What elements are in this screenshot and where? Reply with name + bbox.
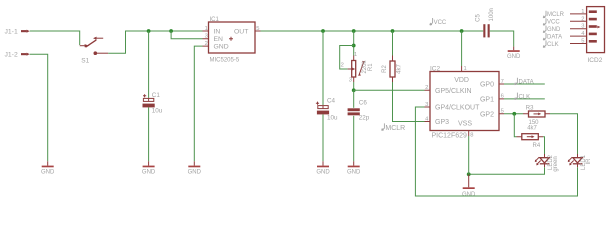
svg-text:EN: EN — [214, 36, 224, 43]
svg-text:MCLR: MCLR — [547, 12, 565, 18]
svg-text:MIC5205-5: MIC5205-5 — [210, 57, 240, 63]
svg-text:3: 3 — [425, 102, 428, 108]
junction dot (R1 branch) — [352, 29, 356, 33]
svg-text:3: 3 — [349, 78, 352, 84]
wire rail to C1 — [148, 31, 150, 98]
ground (J1-2) — [41, 161, 55, 175]
svg-text:GND: GND — [547, 27, 561, 33]
svg-text:R2: R2 — [382, 65, 388, 73]
svg-text:100n: 100n — [489, 8, 495, 21]
svg-text:2: 2 — [205, 41, 208, 47]
wire rail to R2 — [392, 31, 394, 56]
svg-text:GND: GND — [462, 192, 476, 198]
junction dot (R1 wiper loop) — [352, 44, 356, 48]
wire rail to VDD — [461, 31, 463, 66]
svg-text:GP5/CLKIN: GP5/CLKIN — [435, 88, 472, 95]
wire S1 to IC1 IN — [108, 31, 202, 53]
wire junction down to R4 — [514, 114, 516, 137]
ground (C5) — [507, 47, 521, 61]
svg-text:VDD: VDD — [454, 77, 469, 84]
net label MCLR — [382, 123, 406, 132]
svg-text:GP3: GP3 — [435, 119, 449, 126]
svg-text:1: 1 — [464, 66, 467, 72]
wire C6 to ground — [353, 116, 355, 162]
svg-text:GND: GND — [507, 54, 521, 60]
wire IC1 GND pin to ground — [194, 46, 202, 161]
LED LED2 — [535, 154, 559, 172]
svg-text:green: green — [553, 156, 559, 171]
trimmer R1 — [341, 52, 374, 84]
net label GND (ICD2 pin 3) — [543, 26, 561, 33]
capacitor C4 — [316, 98, 338, 122]
capacitor C5 — [475, 8, 495, 37]
svg-text:IC2: IC2 — [430, 65, 441, 72]
resistor R4 — [517, 126, 544, 150]
ground (C6) — [347, 161, 361, 175]
net label DATA — [515, 78, 534, 86]
junction dot (C6 / GP5) — [352, 88, 356, 92]
svg-text:10u: 10u — [152, 108, 163, 115]
svg-text:OUT: OUT — [234, 28, 248, 35]
svg-text:R1: R1 — [368, 63, 374, 71]
net label DATA (ICD2 pin 4) — [543, 33, 562, 40]
switch S1 — [80, 37, 109, 55]
svg-text:10u: 10u — [327, 114, 338, 121]
svg-text:C4: C4 — [327, 98, 336, 105]
svg-text:2: 2 — [341, 63, 344, 69]
svg-text:DATA: DATA — [519, 80, 534, 86]
ground (IC2 VSS) — [462, 174, 476, 198]
net label CLK (ICD2 pin 5) — [543, 40, 558, 47]
ground (C1) — [142, 161, 156, 175]
junction dot (C4 branch) — [321, 29, 325, 33]
svg-text:7: 7 — [501, 79, 504, 85]
svg-text:8: 8 — [470, 133, 473, 139]
connector ICD2 — [570, 7, 605, 64]
LED LED1 — [568, 154, 592, 170]
svg-text:1: 1 — [205, 26, 208, 32]
wire LED2 to VSS net — [469, 167, 545, 174]
svg-text:ICD2: ICD2 — [588, 57, 603, 64]
capacitor C1 — [143, 92, 163, 115]
svg-text:IC1: IC1 — [210, 17, 220, 23]
svg-text:5: 5 — [501, 109, 504, 115]
junction dot (VSS / LED2) — [467, 172, 471, 176]
wire junction to GP5/CLKIN — [354, 89, 425, 91]
junction dot (R3/R4 split) — [512, 112, 516, 116]
net label VCC — [430, 18, 447, 26]
net label CLK — [515, 93, 531, 101]
ground (IC1) — [188, 161, 202, 175]
svg-text:GND: GND — [142, 170, 156, 176]
svg-text:CLK: CLK — [519, 94, 531, 100]
wire rail to C4 — [322, 31, 324, 105]
wire GP2 to R3 — [504, 113, 523, 115]
wire GP1 (CLK) — [504, 98, 545, 100]
svg-text:GND: GND — [41, 170, 55, 176]
ground (C4) — [316, 161, 330, 175]
wire R1 wiper loop — [340, 46, 354, 70]
voltage regulator IC1 — [203, 17, 261, 63]
microcontroller IC2 — [425, 65, 505, 139]
svg-text:1: 1 — [354, 52, 357, 58]
svg-text:VCC: VCC — [547, 20, 560, 26]
svg-text:CLK: CLK — [547, 42, 559, 48]
junction dot (EN branch) — [169, 29, 173, 33]
svg-text:IN: IN — [214, 28, 221, 35]
connector pin J1-2 — [21, 53, 30, 56]
svg-text:C6: C6 — [359, 100, 368, 107]
wire C5 to ground — [490, 31, 514, 47]
wire VCC rail from IC1 OUT — [261, 30, 484, 32]
svg-text:GP2: GP2 — [480, 111, 494, 118]
wire rail to R1 — [353, 31, 355, 56]
svg-text:4k7: 4k7 — [527, 126, 537, 132]
svg-text:3: 3 — [581, 24, 584, 30]
wire C1 to ground — [148, 107, 150, 161]
wire junction to C6 — [353, 90, 355, 108]
connector pin J1-1 — [21, 30, 30, 33]
wire R2 to GP3 / MCLR net — [393, 82, 425, 122]
svg-text:PIC12F629: PIC12F629 — [432, 132, 468, 139]
svg-text:J1-2: J1-2 — [5, 52, 18, 59]
svg-text:DATA: DATA — [547, 34, 562, 40]
junction dot (C1 branch) — [147, 29, 151, 33]
svg-text:4k7: 4k7 — [396, 64, 402, 74]
net label MCLR (ICD2 pin 1) — [543, 11, 564, 18]
svg-text:GP0: GP0 — [480, 82, 494, 89]
wire R4 to LED2 — [543, 137, 545, 154]
svg-text:GND: GND — [188, 170, 202, 176]
svg-text:GND: GND — [316, 170, 330, 176]
wire J1-1 to S1 — [30, 31, 80, 45]
svg-text:VSS: VSS — [458, 121, 472, 128]
wire VSS pin to junction — [468, 136, 470, 174]
resistor R3 — [523, 106, 550, 127]
svg-text:IR: IR — [586, 158, 592, 165]
svg-text:220k: 220k — [362, 59, 368, 73]
svg-text:C5: C5 — [475, 14, 481, 22]
svg-text:C1: C1 — [152, 92, 161, 99]
svg-text:6: 6 — [501, 94, 504, 100]
resistor R2 — [382, 56, 403, 83]
svg-text:5: 5 — [581, 39, 584, 45]
svg-text:S1: S1 — [81, 58, 89, 65]
svg-text:GND: GND — [214, 44, 229, 51]
wire LED1 to GP4/CLKOUT — [415, 107, 577, 196]
wire R3 to LED1 — [550, 114, 578, 154]
svg-text:2: 2 — [425, 85, 428, 91]
svg-text:R4: R4 — [533, 143, 541, 149]
svg-text:1: 1 — [581, 9, 584, 15]
svg-text:MCLR: MCLR — [385, 125, 405, 132]
capacitor C6 — [348, 100, 370, 122]
wire R1 to C6 junction — [353, 82, 355, 90]
wire rail to EN pin — [171, 31, 202, 39]
svg-text:5: 5 — [256, 26, 259, 32]
wire C4 to ground — [322, 114, 324, 161]
svg-text:J1-1: J1-1 — [5, 29, 18, 36]
svg-text:GP1: GP1 — [480, 97, 494, 104]
svg-text:22p: 22p — [359, 114, 370, 121]
net label VCC (ICD2 pin 2) — [543, 18, 560, 25]
svg-text:GND: GND — [347, 170, 361, 176]
svg-text:R3: R3 — [526, 106, 534, 112]
wire GP0 (DATA) — [504, 83, 545, 85]
svg-text:GP4/CLKOUT: GP4/CLKOUT — [435, 105, 480, 112]
junction dot (VDD branch) — [460, 29, 464, 33]
svg-text:3: 3 — [205, 34, 208, 40]
svg-text:VCC: VCC — [434, 20, 447, 26]
wire J1-2 to ground — [30, 54, 48, 161]
svg-text:2: 2 — [581, 16, 584, 22]
junction dot (R2 branch) — [391, 29, 395, 33]
